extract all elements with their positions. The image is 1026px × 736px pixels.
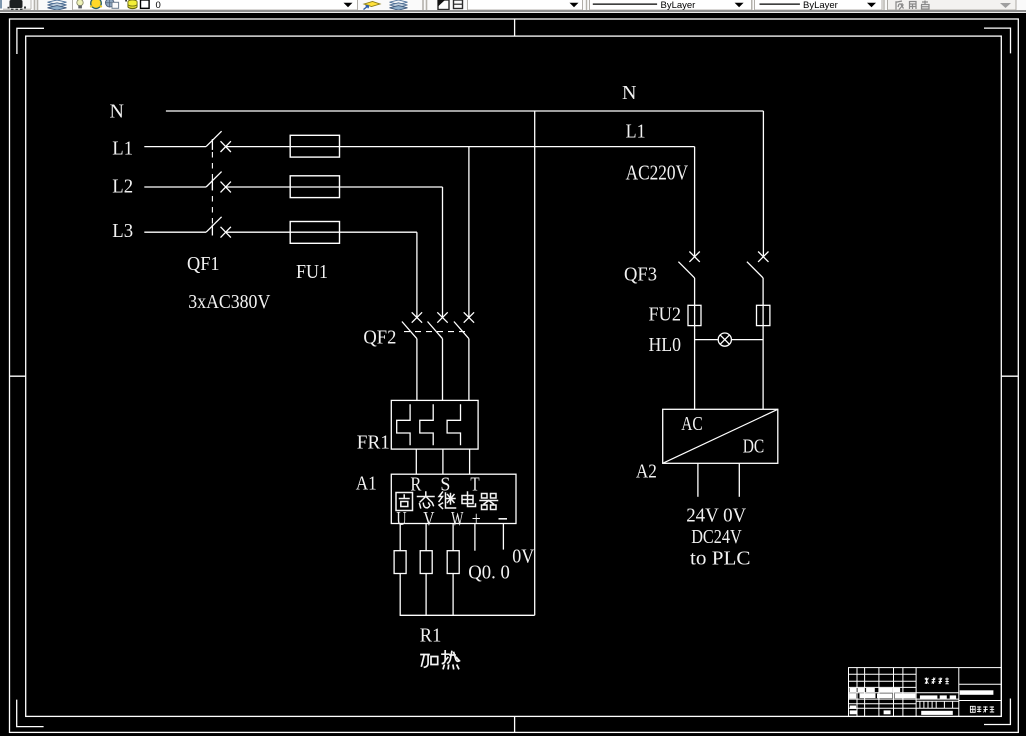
icon printer coins: [125, 0, 127, 2]
svg-text:A2: A2: [636, 461, 657, 483]
char re: [442, 651, 460, 669]
wire FR1 to A1 R: [415, 449, 417, 474]
wire V below resistor: [425, 574, 427, 616]
fuse FU2 right: [757, 305, 770, 325]
left grid text blobs row B: [849, 693, 856, 698]
svg-text:L1: L1: [112, 137, 133, 159]
wire N drop to heater bus: [534, 111, 536, 615]
svg-text:N: N: [622, 82, 636, 104]
svg-text:N: N: [110, 101, 124, 123]
title block: [849, 668, 1002, 717]
icon new-ucs black square: [10, 0, 23, 8]
centring tick bottom: [514, 716, 516, 732]
svg-text:T: T: [470, 474, 479, 496]
resistor R1 element U: [394, 551, 406, 574]
icon set-current-layer: [364, 2, 380, 7]
icon colour swatch: [141, 0, 150, 8]
svg-text:QF1: QF1: [187, 253, 220, 275]
corner mark bottom-right: [984, 699, 1010, 725]
svg-text:3xAC380V: 3xAC380V: [188, 291, 270, 313]
wire L3 left lead: [144, 231, 206, 233]
middle small cells: [916, 701, 959, 708]
sep line: [586, 0, 588, 10]
centring tick left: [10, 375, 26, 377]
schematic text labels: [110, 82, 765, 647]
wire A2 out 24V: [697, 463, 699, 497]
svg-text:+: +: [472, 508, 481, 530]
svg-text:L2: L2: [112, 176, 133, 198]
icon layers stack: [48, 0, 67, 10]
wire N bus: [166, 110, 764, 112]
wire L3 run: [226, 231, 417, 233]
left grid text blobs row A: [850, 688, 857, 692]
middle bottom bar: [921, 711, 953, 715]
svg-text:ByLayer: ByLayer: [661, 0, 696, 10]
breaker QF2 pole1: [402, 312, 422, 400]
svg-text:AC220V: AC220V: [626, 161, 689, 185]
toolbar: [0, 0, 1026, 10]
centring tick right: [1001, 375, 1018, 377]
svg-text:0V: 0V: [512, 545, 534, 567]
wire A2 out 0V: [738, 463, 740, 497]
svg-text:QF2: QF2: [363, 326, 396, 348]
svg-text:AC: AC: [681, 413, 703, 435]
char qi: [480, 494, 498, 510]
wire L3 drop to QF2 pole1: [416, 232, 418, 317]
CJK grey suiyanse: [896, 1, 929, 10]
svg-text:FR1: FR1: [357, 432, 390, 454]
QF1 linkage dashed: [211, 152, 213, 224]
breaker QF2 pole2: [428, 312, 448, 400]
wire minus stub: [502, 524, 504, 550]
icon bulb: [77, 0, 83, 6]
title block outline: [849, 668, 1002, 717]
text tuyang daihao: [970, 706, 994, 712]
solid state relay A1 box: [391, 474, 516, 523]
FR1 heater element 3: [447, 404, 460, 445]
svg-text:ByLayer: ByLayer: [803, 0, 838, 10]
resistor R1 element W: [447, 551, 459, 574]
wire plus stub: [474, 524, 476, 551]
left small blobs bottom: [850, 706, 856, 709]
thermal relay FR1 box: [391, 400, 478, 449]
power supply A2 box: [663, 409, 778, 463]
svg-text:V: V: [423, 508, 435, 530]
heater bus wire: [400, 614, 535, 616]
svg-text:to PLC: to PLC: [690, 547, 751, 569]
wire L2 left lead: [144, 186, 206, 188]
lamp branch wire right: [731, 339, 763, 341]
breaker QF1 pole L3: [206, 217, 231, 238]
svg-text:L1: L1: [626, 121, 646, 143]
wire right L1 drop: [694, 147, 696, 257]
wire L1 main run: [226, 146, 695, 148]
breaker QF1 pole L1: [206, 131, 231, 152]
lineweight combo: [755, 0, 883, 10]
svg-text:DC: DC: [743, 436, 765, 458]
corner mark top-left: [17, 28, 44, 54]
QF2 linkage dashed: [404, 331, 470, 333]
svg-text:HL0: HL0: [649, 334, 682, 356]
breaker QF2 pole3: [454, 312, 474, 400]
svg-text:W: W: [451, 508, 463, 530]
svg-text:Q0. 0: Q0. 0: [468, 562, 510, 584]
partial icon far left: [0, 0, 2, 9]
lamp branch wire left: [695, 339, 719, 341]
wire FR1 to A1 T: [469, 449, 471, 474]
icon layers2: [390, 0, 408, 10]
icon lock sheet: [106, 0, 114, 7]
wire L2 drop to QF2 pole2: [442, 187, 444, 318]
linetype combo: [590, 0, 752, 10]
FR1 heater element 1: [397, 404, 410, 445]
colour combo: [468, 0, 583, 10]
char ji: [439, 492, 456, 509]
toolbar grip: [35, 0, 38, 10]
wire W below resistor: [452, 574, 454, 616]
breaker QF3 pole1: [678, 252, 699, 410]
wire L1 left lead: [144, 146, 206, 148]
A2 diagonal: [663, 409, 778, 463]
wire U below resistor: [399, 574, 401, 616]
svg-text:0: 0: [156, 0, 161, 10]
char jia: [421, 655, 438, 668]
svg-text:DC24V: DC24V: [691, 526, 742, 548]
wire right N drop: [762, 111, 764, 257]
FR1 heater element 2: [420, 404, 433, 445]
breaker QF1 pole L2: [206, 172, 231, 193]
breaker QF3 pole2: [747, 252, 769, 410]
layer combo field: [73, 0, 358, 10]
fuse FU1 element L2: [290, 176, 339, 198]
middle horizontals: [916, 693, 959, 709]
wire U: [399, 524, 401, 551]
char dian: [462, 492, 476, 507]
wire L2 run: [226, 186, 443, 188]
plotstyle combo disabled: [888, 0, 1017, 10]
svg-text:A1: A1: [356, 473, 377, 495]
svg-text:R1: R1: [420, 625, 442, 647]
button edge: [3, 0, 31, 9]
svg-text:FU1: FU1: [296, 261, 328, 283]
wire W: [452, 524, 454, 551]
right section horizontals: [959, 684, 1002, 700]
icon make-object-layer: [438, 0, 449, 10]
middle section divider: [958, 668, 960, 717]
icon sun: [91, 0, 102, 9]
wire V: [425, 524, 427, 551]
left grid horizontals: [849, 674, 917, 708]
text cailiao biaoji: [925, 678, 949, 685]
wire L1 drop to QF2 pole3: [468, 147, 470, 318]
right long bar: [960, 690, 994, 695]
char tai: [418, 492, 435, 508]
icon layer-states: [454, 0, 463, 9]
svg-text:FU2: FU2: [649, 304, 682, 326]
pin minus mark: [499, 518, 508, 520]
wire FR1 to A1 S: [442, 449, 444, 474]
fuse FU1 element L3: [290, 222, 339, 244]
left grid verticals: [857, 668, 916, 717]
svg-text:L3: L3: [112, 220, 133, 242]
svg-text:24V 0V: 24V 0V: [686, 505, 747, 527]
svg-text:QF3: QF3: [624, 264, 657, 286]
centring tick top: [514, 19, 516, 36]
sep line: [751, 0, 753, 10]
fuse FU2 left: [688, 305, 701, 325]
sep line: [883, 0, 885, 10]
middle bars under material mark: [920, 695, 938, 699]
char gu: [396, 493, 413, 511]
lamp HL0: [718, 333, 731, 346]
layer combo arrow: [344, 3, 353, 8]
toolbar grip 2: [423, 0, 427, 10]
corner mark bottom-left: [17, 700, 44, 727]
fuse FU1 element L1: [290, 135, 339, 157]
CJK: relay name 固态继电器: [396, 492, 498, 669]
resistor R1 element V: [420, 551, 432, 574]
corner mark top-right: [984, 28, 1011, 53]
